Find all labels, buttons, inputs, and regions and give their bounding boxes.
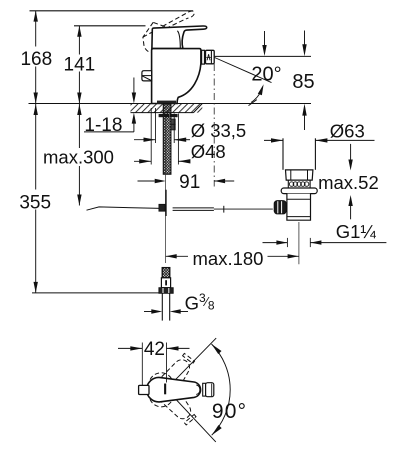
reference line top of handle body (141 extent) xyxy=(74,25,146,27)
pop-up rod vertical pin xyxy=(165,190,167,216)
svg-text:141: 141 xyxy=(64,54,96,75)
dimension diameter 33.5 extension lines xyxy=(155,108,157,143)
svg-text:max.52: max.52 xyxy=(318,172,379,193)
top view spout inner arc xyxy=(196,385,200,395)
dimension max.300 arrows xyxy=(77,104,81,115)
90 degree arc xyxy=(212,344,231,435)
svg-text:max.180: max.180 xyxy=(193,248,264,269)
dimension 91 arrows xyxy=(155,179,166,183)
svg-text:91: 91 xyxy=(179,172,200,193)
svg-text:G3⁄8: G3⁄8 xyxy=(185,291,215,314)
dimension 1-18 arrows and leader xyxy=(133,78,135,93)
faucet aerator xyxy=(202,50,205,64)
svg-text:85: 85 xyxy=(292,71,314,93)
aerator vertical extension line xyxy=(213,64,215,187)
svg-text:90°: 90° xyxy=(212,400,247,423)
swing sector ray lower-right xyxy=(162,385,216,442)
dimension diameter 33.5 arrows xyxy=(144,138,156,142)
dimension diameter 48 line xyxy=(134,160,151,162)
dimension 91 lines xyxy=(138,180,155,182)
deck top surface line xyxy=(29,103,312,105)
pop-up rod connector block xyxy=(159,204,165,211)
faucet threaded shank xyxy=(163,104,171,175)
svg-text:355: 355 xyxy=(19,192,51,213)
dimension 141 arrows xyxy=(77,26,81,37)
dimension max.180 arrows xyxy=(166,254,177,258)
90 degree arc arrows xyxy=(212,344,222,354)
pop-up rod sleeve xyxy=(173,207,214,209)
dimension G1-1/4 arrows xyxy=(276,240,287,244)
svg-text:168: 168 xyxy=(20,49,52,70)
faucet base seal at deck xyxy=(157,101,176,104)
waste flange xyxy=(281,188,317,194)
waste body xyxy=(287,194,311,221)
dimension max.52 line xyxy=(350,144,352,160)
svg-text:Ø63: Ø63 xyxy=(330,120,365,141)
faucet backnut below deck xyxy=(159,114,178,117)
dimension max.300 line xyxy=(78,104,80,148)
waste tailpipe centerline xyxy=(298,222,300,264)
dimension 355 bottom reference line xyxy=(32,292,159,294)
dimension 168 line xyxy=(35,11,37,47)
dimension diameter 63 line xyxy=(264,139,283,141)
top view dashed handle position swung up xyxy=(144,350,199,412)
dimension diameter 48 arrows xyxy=(139,159,151,163)
deck line break tick xyxy=(249,100,257,106)
faucet shank clamp screw xyxy=(171,119,175,124)
dimension G1-1/4 line xyxy=(263,242,288,244)
dimension G1-1/4 extension lines xyxy=(286,238,288,247)
top view back tab xyxy=(139,385,149,394)
svg-text:G1¼: G1¼ xyxy=(336,221,377,242)
dimension 355 arrows xyxy=(34,104,38,115)
dimension 168 arrows xyxy=(34,11,38,22)
swing sector ray upper-right xyxy=(159,338,216,396)
dimension diameter 33.5 line xyxy=(134,139,156,141)
supply pipe xyxy=(161,293,163,320)
mounting deck hatched band xyxy=(131,104,203,113)
dimension 85 line xyxy=(304,31,306,46)
top view handle hub mark xyxy=(164,384,166,395)
20 degree leader arrow top xyxy=(264,31,266,45)
svg-text:42: 42 xyxy=(144,339,165,360)
dimension G3/8 arrows xyxy=(151,309,162,313)
svg-text:max.300: max.300 xyxy=(43,146,114,167)
svg-text:20°: 20° xyxy=(251,64,281,86)
20 degree curved leader arrow xyxy=(251,87,263,103)
dimension max.180 line xyxy=(166,255,188,257)
reference line top of lever (168 extent) xyxy=(30,10,194,12)
faucet body xyxy=(152,49,201,104)
dimension 355 line xyxy=(35,104,37,190)
svg-text:Ø48: Ø48 xyxy=(191,141,226,162)
dimension G3/8 line xyxy=(144,311,152,313)
top view aerator tip xyxy=(203,383,206,396)
faucet centerline below deck xyxy=(165,118,167,263)
svg-text:Ø 33,5: Ø 33,5 xyxy=(191,120,247,141)
dimension max.52 arrows xyxy=(348,160,352,171)
20 degree spray ray xyxy=(215,58,272,83)
faucet dashed raised lever position xyxy=(143,11,194,54)
dimension diameter 48 extension lines xyxy=(150,108,152,165)
aerator outlet reference line xyxy=(215,55,311,57)
dimension 85 arrows xyxy=(302,44,306,56)
faucet pop-up knob xyxy=(142,71,152,81)
waste stopper cap xyxy=(286,170,313,180)
supply stud nut xyxy=(159,288,173,294)
supply stud threaded top xyxy=(162,268,170,278)
dimension 42 arrows xyxy=(130,346,142,350)
dimension 42 extension lines xyxy=(141,343,143,386)
top view faucet body outline xyxy=(147,378,201,402)
top view dashed handle position swung down xyxy=(144,368,201,429)
svg-text:1-18: 1-18 xyxy=(84,115,122,136)
waste knurled neck xyxy=(287,180,289,188)
dimension 141 line xyxy=(78,26,80,55)
pop-up rod xyxy=(87,207,162,210)
waste lever knob xyxy=(274,201,286,214)
dimension diameter 63 arrows xyxy=(271,138,283,142)
waste stopper cylinder sides (diameter 63 extents) xyxy=(282,138,284,170)
supply stud middle xyxy=(161,278,170,288)
faucet lever (solid) xyxy=(152,26,207,49)
dimension 42 line xyxy=(118,347,142,349)
pop-up rod wire to waste xyxy=(214,208,273,210)
